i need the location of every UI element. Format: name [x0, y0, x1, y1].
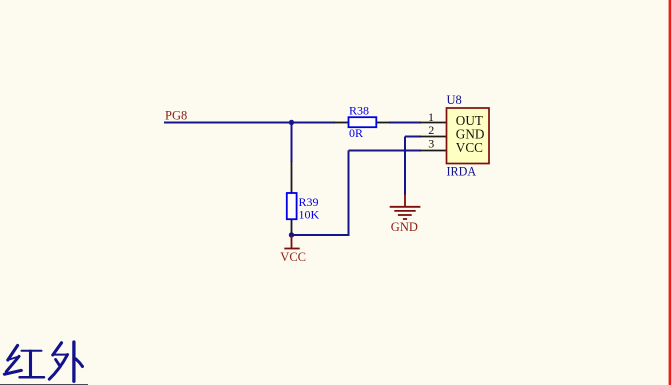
svg-text:0R: 0R	[349, 126, 363, 140]
svg-text:10K: 10K	[299, 208, 320, 222]
svg-text:3: 3	[428, 137, 434, 151]
svg-text:VCC: VCC	[456, 140, 483, 155]
svg-text:2: 2	[428, 123, 434, 137]
svg-text:R38: R38	[349, 104, 369, 118]
svg-text:IRDA: IRDA	[447, 164, 477, 178]
svg-text:U8: U8	[447, 93, 462, 107]
svg-text:1: 1	[428, 110, 434, 124]
svg-text:GND: GND	[391, 220, 418, 234]
svg-text:PG8: PG8	[165, 108, 187, 122]
svg-text:VCC: VCC	[280, 250, 306, 264]
